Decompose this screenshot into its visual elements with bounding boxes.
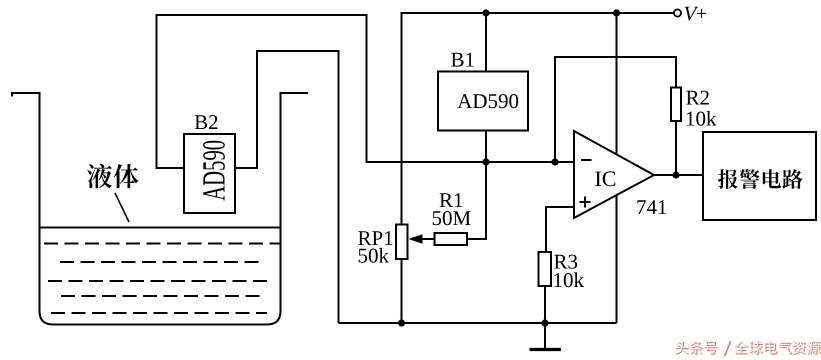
junction top rail / B1 top [482,9,489,16]
wire: R2 bottom to output node [675,121,677,175]
wire: B1 bottom pin down to node and R1 column [467,131,486,240]
wire: bottom ground rail [339,322,617,324]
resistor R1 50M [433,193,471,245]
potentiometer RP1 50k [358,225,434,324]
junction bottom rail / R3 ground [541,319,548,326]
terminal V+ [674,7,706,21]
wire: B2 right pin to bottom ground rail [235,51,339,323]
junction top rail / op-amp V+ column [613,9,620,16]
resistor R2 10k [671,88,717,126]
wire: V+ column through op-amp to bottom rail [616,13,618,323]
sensor B2 (AD590) box [184,115,235,213]
wire: B1 top pin [485,13,487,72]
junction inverting node / B1 bottom [482,158,489,165]
liquid surface line [40,227,280,229]
resistor R3 10k [539,252,585,323]
tank (open container) [12,93,308,325]
wire: op-amp output to alarm box [654,174,703,176]
wire: non-inverting input to R3 [546,207,574,252]
junction output / R2 [672,171,679,178]
sensor B1 (AD590) box [438,53,528,131]
liquid dashed fill [44,244,280,314]
op-amp IC 741 [574,131,666,218]
wire: feedback from inverting node up and over to R2 [555,57,676,162]
junction inverting node / feedback [551,158,558,165]
junction bottom rail / RP1 [398,319,405,326]
ground symbol [530,323,562,350]
alarm circuit box 报警电路 [703,132,816,220]
wire: top V+ rail and RP1 top column [402,13,674,225]
wire: B2 left pin up-over to op-amp inverting input (node at y162) [157,15,575,168]
watermark 头条号/全球电气资源 [675,340,821,356]
label: liquid 液体 with pointer [87,164,138,222]
